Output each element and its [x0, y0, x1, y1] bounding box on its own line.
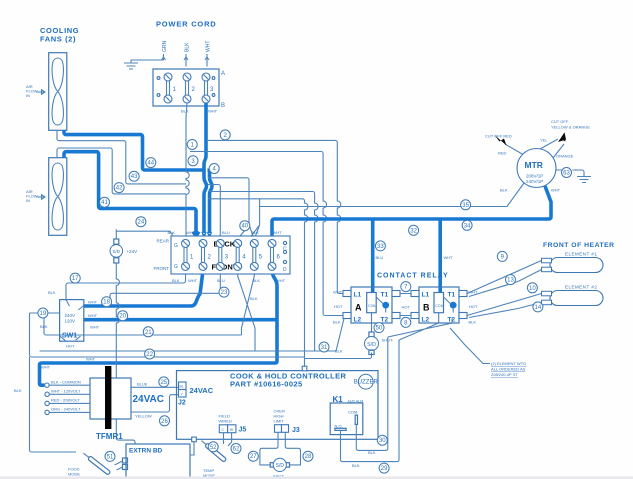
- svg-text:RED - 208VOLT: RED - 208VOLT: [51, 398, 80, 403]
- svg-text:ALL ORDERED AS: ALL ORDERED AS: [491, 367, 526, 372]
- svg-text:T1: T1: [448, 292, 456, 299]
- svg-text:44: 44: [147, 161, 154, 167]
- svg-text:43: 43: [131, 174, 138, 180]
- svg-text:WHT: WHT: [88, 300, 98, 305]
- svg-text:BLK: BLK: [469, 320, 477, 325]
- svg-text:L1: L1: [422, 292, 430, 299]
- svg-text:K1: K1: [333, 395, 344, 404]
- svg-text:BLK: BLK: [368, 450, 376, 455]
- svg-text:IN: IN: [26, 93, 30, 98]
- svg-text:CUT OFF: CUT OFF: [551, 119, 569, 124]
- svg-text:COIL: COIL: [368, 304, 376, 308]
- svg-text:POWER CORD: POWER CORD: [156, 20, 217, 29]
- svg-text:S/D: S/D: [367, 342, 376, 348]
- svg-text:REAR: REAR: [156, 239, 169, 244]
- svg-text:18: 18: [103, 300, 110, 306]
- svg-text:BUZZER: BUZZER: [354, 379, 379, 385]
- svg-text:COIL: COIL: [435, 304, 443, 308]
- svg-text:29: 29: [381, 466, 388, 472]
- svg-text:BLU: BLU: [222, 230, 230, 235]
- svg-text:22: 22: [146, 352, 153, 358]
- svg-text:LIMIT: LIMIT: [274, 419, 285, 424]
- svg-text:BLK: BLK: [252, 230, 260, 235]
- svg-text:B: B: [221, 103, 225, 109]
- svg-text:20: 20: [119, 314, 126, 320]
- svg-text:120V: 120V: [65, 319, 76, 324]
- svg-text:BLK - COMMON: BLK - COMMON: [51, 379, 81, 384]
- svg-text:FANS (2): FANS (2): [40, 35, 76, 44]
- svg-text:J2: J2: [178, 400, 186, 407]
- svg-text:52: 52: [210, 445, 217, 451]
- svg-text:26: 26: [161, 419, 168, 425]
- svg-text:BLK: BLK: [172, 278, 180, 283]
- svg-text:YEL: YEL: [540, 138, 548, 143]
- svg-text:24: 24: [138, 220, 145, 226]
- svg-text:BLK: BLK: [333, 320, 341, 325]
- svg-text:+24V: +24V: [127, 249, 138, 254]
- svg-text:BLK: BLK: [48, 290, 56, 295]
- svg-text:WHT: WHT: [276, 278, 286, 283]
- svg-text:21: 21: [145, 330, 152, 336]
- svg-text:WHT: WHT: [90, 325, 100, 330]
- svg-text:TFMR1: TFMR1: [96, 432, 123, 441]
- svg-text:L1: L1: [354, 292, 362, 299]
- svg-text:BLK: BLK: [185, 42, 191, 52]
- svg-text:HOT: HOT: [402, 305, 411, 310]
- svg-text:33: 33: [377, 244, 384, 250]
- svg-text:28: 28: [305, 454, 312, 460]
- svg-text:BLK: BLK: [14, 388, 22, 393]
- svg-text:208V/1P: 208V/1P: [526, 174, 543, 179]
- svg-text:BLU: BLU: [376, 255, 384, 260]
- svg-text:WHT: WHT: [551, 188, 561, 193]
- svg-text:IN: IN: [26, 198, 30, 203]
- svg-text:SW1: SW1: [62, 333, 77, 340]
- svg-text:240V: 240V: [65, 313, 76, 318]
- svg-text:35: 35: [462, 203, 469, 209]
- svg-text:WHT: WHT: [188, 278, 198, 283]
- svg-text:N.O.: N.O.: [335, 423, 343, 428]
- svg-text:ORANGE: ORANGE: [556, 154, 574, 159]
- svg-text:WHT: WHT: [273, 230, 283, 235]
- svg-text:YELLOW & ORANGE: YELLOW & ORANGE: [551, 125, 590, 130]
- svg-text:208/240-4P ST: 208/240-4P ST: [491, 372, 518, 377]
- svg-text:WHT: WHT: [208, 109, 218, 114]
- svg-text:32: 32: [410, 228, 417, 234]
- svg-text:CUT OFF RED: CUT OFF RED: [485, 134, 512, 139]
- svg-text:T1: T1: [381, 292, 389, 299]
- svg-text:FRONT OF HEATER: FRONT OF HEATER: [543, 242, 615, 249]
- svg-text:BLK: BLK: [250, 296, 258, 301]
- svg-text:240V/1P: 240V/1P: [526, 179, 543, 184]
- svg-text:PART #10616-0025: PART #10616-0025: [230, 380, 303, 389]
- svg-text:(2) ELEMENT WTG: (2) ELEMENT WTG: [491, 361, 526, 366]
- svg-text:A: A: [355, 303, 362, 313]
- svg-text:CONTACT RELAY: CONTACT RELAY: [377, 273, 449, 280]
- svg-text:D: D: [283, 267, 287, 273]
- svg-text:BLU: BLU: [217, 278, 225, 283]
- svg-text:AUD ALM: AUD ALM: [348, 400, 364, 404]
- svg-text:HOT: HOT: [469, 304, 478, 309]
- svg-text:34: 34: [464, 223, 471, 229]
- svg-text:L2: L2: [354, 317, 362, 324]
- svg-text:BLK: BLK: [168, 230, 176, 235]
- svg-text:B: B: [423, 303, 430, 313]
- svg-text:50: 50: [376, 326, 383, 332]
- svg-text:WHT: WHT: [444, 255, 454, 260]
- svg-text:FRONT: FRONT: [154, 266, 170, 271]
- svg-text:WHT: WHT: [206, 41, 212, 52]
- svg-text:COM: COM: [348, 410, 357, 415]
- svg-text:25: 25: [160, 380, 167, 386]
- svg-text:YELLOW: YELLOW: [135, 414, 152, 419]
- svg-text:J3: J3: [292, 427, 300, 434]
- svg-text:51: 51: [107, 454, 114, 460]
- svg-text:L2: L2: [422, 317, 430, 324]
- svg-text:14: 14: [535, 305, 542, 311]
- svg-text:24VAC: 24VAC: [190, 386, 214, 395]
- svg-text:S/D: S/D: [112, 249, 120, 254]
- svg-text:G: G: [174, 264, 178, 270]
- svg-text:63: 63: [563, 171, 570, 177]
- svg-text:ORG - 240VOLT: ORG - 240VOLT: [51, 407, 81, 412]
- svg-text:C: C: [222, 428, 225, 432]
- svg-text:BLK: BLK: [335, 349, 343, 354]
- svg-text:19: 19: [40, 311, 47, 317]
- svg-text:41: 41: [101, 200, 108, 206]
- svg-text:EXTRN BD: EXTRN BD: [129, 448, 163, 455]
- svg-text:WHT - 120VOLT: WHT - 120VOLT: [51, 389, 81, 394]
- svg-text:BLK: BLK: [40, 324, 48, 329]
- svg-text:17: 17: [72, 276, 79, 282]
- svg-text:G: G: [174, 243, 178, 249]
- svg-text:MODE: MODE: [68, 472, 80, 477]
- svg-text:42: 42: [116, 186, 123, 192]
- svg-text:13: 13: [507, 278, 514, 284]
- svg-text:BLUE: BLUE: [137, 382, 148, 387]
- svg-text:A: A: [221, 71, 225, 77]
- svg-text:WHT: WHT: [88, 313, 98, 318]
- svg-text:WHT: WHT: [41, 365, 51, 370]
- svg-text:GRN: GRN: [162, 41, 168, 53]
- svg-text:MTR: MTR: [525, 160, 543, 170]
- svg-text:40: 40: [241, 224, 248, 230]
- svg-text:30: 30: [379, 438, 386, 444]
- svg-text:HOT: HOT: [66, 344, 75, 349]
- svg-text:ELEMENT #2: ELEMENT #2: [565, 285, 597, 290]
- svg-text:62: 62: [233, 447, 240, 453]
- svg-text:WIRED: WIRED: [219, 418, 232, 423]
- svg-text:WHT: WHT: [86, 357, 96, 362]
- svg-text:HOT: HOT: [334, 304, 343, 309]
- svg-text:W: W: [230, 428, 234, 432]
- svg-text:J5: J5: [239, 427, 247, 434]
- svg-text:C: C: [283, 247, 287, 253]
- svg-text:RED: RED: [498, 151, 507, 156]
- svg-text:WHT: WHT: [186, 230, 196, 235]
- svg-text:31: 31: [321, 345, 328, 351]
- svg-text:S/D: S/D: [276, 463, 285, 469]
- svg-text:24VAC: 24VAC: [133, 394, 165, 405]
- svg-text:10: 10: [529, 286, 536, 292]
- svg-text:BL: BL: [180, 385, 184, 389]
- svg-text:27: 27: [250, 454, 257, 460]
- svg-text:T2: T2: [381, 317, 389, 324]
- svg-text:ELEMENT #1: ELEMENT #1: [565, 252, 597, 257]
- svg-text:BLK: BLK: [352, 463, 360, 468]
- svg-text:BLK: BLK: [181, 109, 189, 114]
- svg-text:BLK: BLK: [500, 188, 508, 193]
- svg-text:WHT: WHT: [333, 290, 343, 295]
- svg-text:BLK: BLK: [253, 278, 261, 283]
- svg-text:23: 23: [221, 290, 228, 296]
